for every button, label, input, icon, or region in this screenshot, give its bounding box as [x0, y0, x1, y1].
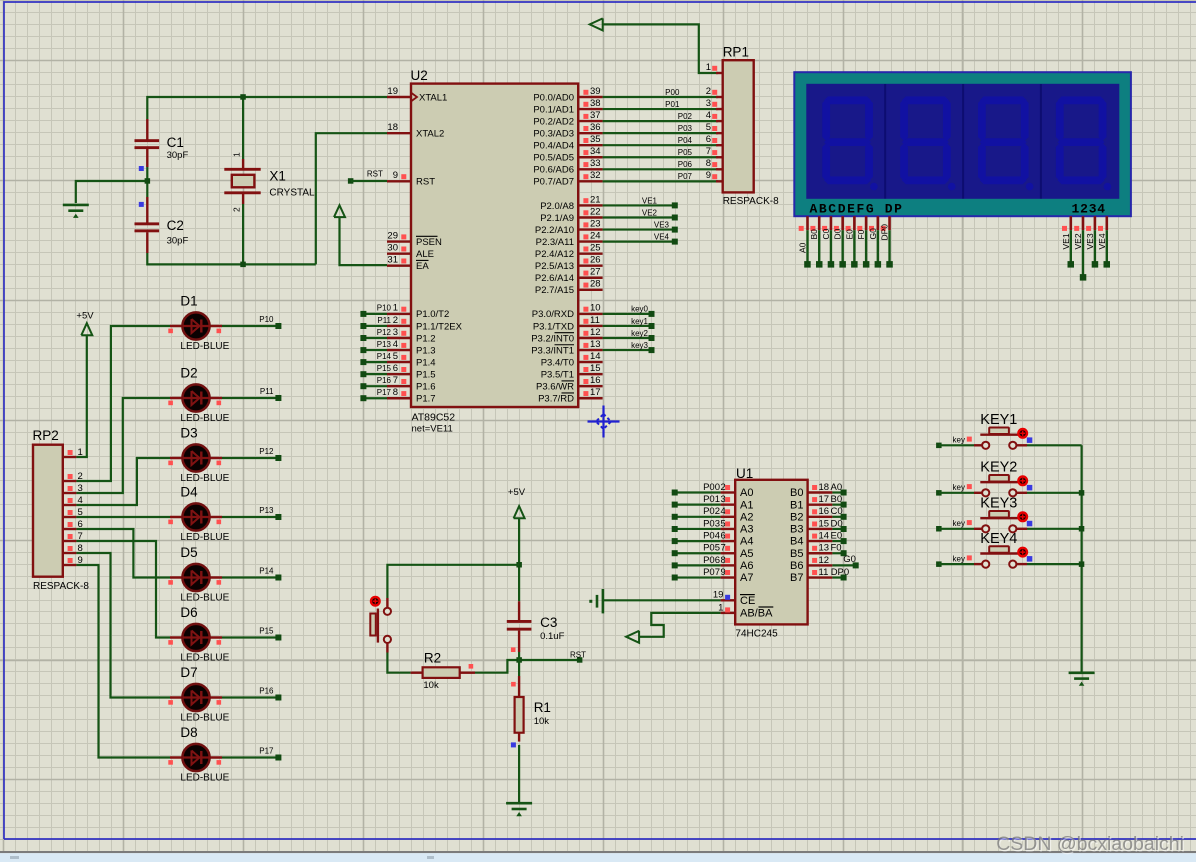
svg-text:RST: RST — [367, 170, 383, 179]
pin 14 P3.4/T0 (U2 right) — [578, 361, 602, 363]
svg-text:32: 32 — [590, 170, 601, 181]
svg-text:F0: F0 — [856, 229, 866, 239]
power arrow +5V (LED rail) — [81, 323, 92, 335]
terminal display DP0 — [886, 261, 893, 268]
svg-text:LED-BLUE: LED-BLUE — [180, 341, 229, 352]
wire RP2 pin7 to D6 — [76, 541, 170, 638]
wire P10 terminal stub — [363, 313, 387, 315]
svg-text:P3.2/INT0: P3.2/INT0 — [531, 333, 574, 344]
clock chevron XTAL1 — [411, 93, 417, 102]
pin 13 B5 (U1 right) — [808, 552, 833, 554]
wire CE ground to pin19 — [603, 599, 721, 601]
pin 21 P2.0/A8 (U2 right) — [578, 204, 602, 206]
svg-text:1234: 1234 — [1072, 202, 1106, 217]
pin 18 B0 (U1 right) — [808, 491, 833, 493]
pin E0 (display segment) — [853, 216, 856, 230]
wire crystal top lead — [242, 97, 244, 159]
logic-state markers D5 — [168, 580, 173, 585]
wire display C0 — [830, 230, 832, 264]
terminal P15 — [360, 371, 366, 377]
svg-text:P13: P13 — [377, 340, 392, 349]
svg-text:14: 14 — [590, 351, 601, 362]
svg-text:P12: P12 — [377, 328, 392, 337]
svg-text:X1: X1 — [269, 169, 286, 184]
pin 37 P0.2/AD2 (U2 right) — [578, 120, 602, 122]
svg-text:P0.2/AD2: P0.2/AD2 — [533, 116, 574, 127]
pin B0 (display segment) — [818, 216, 821, 230]
terminal VE4 — [672, 239, 678, 245]
crystal X1 — [242, 159, 244, 168]
terminal key1 (button side) — [936, 490, 942, 496]
svg-text:AB/BA: AB/BA — [740, 608, 773, 620]
terminal RST — [348, 178, 354, 184]
svg-text:D0: D0 — [833, 228, 843, 239]
svg-text:P03: P03 — [678, 124, 693, 133]
wire P03 to U1 — [675, 528, 721, 530]
svg-text:AT89C52: AT89C52 — [412, 412, 456, 424]
svg-text:P11: P11 — [260, 387, 274, 396]
svg-text:13: 13 — [819, 543, 830, 554]
svg-text:30: 30 — [387, 242, 398, 253]
svg-text:4: 4 — [393, 339, 398, 350]
pin A0 (display segment) — [806, 216, 809, 230]
pin 4 A2 (U1 left) — [721, 516, 736, 518]
terminal P14 — [360, 359, 366, 365]
svg-text:2: 2 — [393, 315, 398, 326]
svg-text:RP2: RP2 — [33, 428, 59, 443]
pin 4 P1.3 (U2 left) — [387, 349, 411, 351]
svg-text:B0: B0 — [831, 494, 843, 505]
svg-text:36: 36 — [590, 122, 601, 133]
svg-text:P1.2: P1.2 — [416, 333, 436, 344]
svg-text:A0: A0 — [798, 242, 808, 253]
svg-text:KEY4: KEY4 — [980, 531, 1017, 547]
wire reset button to R2 — [387, 653, 410, 673]
svg-text:P0.7/AD7: P0.7/AD7 — [533, 177, 574, 188]
pin 8 (RP2) — [63, 552, 77, 554]
pin 9 (RP1) — [716, 180, 724, 182]
wire VE4 net stub — [603, 241, 675, 243]
wire F0 net stub — [832, 552, 843, 554]
pin 16 B2 (U1 right) — [808, 516, 833, 518]
pin D0 (display segment) — [841, 216, 844, 230]
svg-text:1: 1 — [706, 62, 711, 73]
logic-state markers D4 — [168, 520, 173, 525]
svg-text:P1.4: P1.4 — [416, 357, 436, 368]
wire RP2 pin3 to D2 — [76, 398, 170, 493]
pin 3 P1.2 (U2 left) — [387, 337, 411, 339]
svg-text:P1.3: P1.3 — [416, 345, 436, 356]
node crystal bottom junction — [240, 262, 246, 268]
wire VE1 net stub — [603, 204, 675, 206]
svg-text:ALE: ALE — [416, 249, 434, 260]
svg-text:1: 1 — [232, 152, 242, 157]
svg-text:P3.7/RD: P3.7/RD — [538, 394, 574, 405]
wire display VE3 — [1094, 230, 1096, 264]
wire display E0 — [853, 230, 855, 264]
wire key3 net stub — [603, 349, 652, 351]
pin 27 P2.6/A14 (U2 right) — [578, 277, 602, 279]
logic-state marker C1 pin2 — [139, 166, 144, 171]
wire A0 net stub — [832, 491, 843, 493]
wire P07 net — [603, 180, 718, 182]
capacitor C2 — [146, 197, 148, 223]
terminal F0 — [841, 550, 847, 556]
terminal key2 — [649, 335, 655, 341]
pin 19 CE (U1) — [721, 599, 736, 601]
svg-text:P13: P13 — [259, 506, 274, 515]
pin 7 A5 (U1 left) — [721, 552, 736, 554]
svg-text:A0: A0 — [831, 482, 843, 493]
svg-text:LED-BLUE: LED-BLUE — [180, 653, 229, 664]
wire KEY3 right to bus — [1027, 528, 1082, 530]
pin 17 P3.7/RD (U2 right) — [578, 397, 602, 399]
svg-text:LED-BLUE: LED-BLUE — [180, 532, 229, 543]
svg-text:19: 19 — [713, 590, 724, 601]
wire top junction to reset button — [387, 565, 519, 598]
terminal key1 — [649, 323, 655, 329]
svg-text:CRYSTAL: CRYSTAL — [269, 188, 315, 199]
terminal VE1 — [672, 202, 678, 208]
svg-text:1: 1 — [393, 303, 398, 314]
pin 33 P0.6/AD6 (U2 right) — [578, 168, 602, 170]
terminal P12 — [360, 335, 366, 341]
svg-text:E0: E0 — [844, 229, 854, 240]
svg-text:P15: P15 — [377, 364, 392, 373]
pin 5 (RP1) — [716, 132, 724, 134]
terminal P00 (U1 side) — [672, 490, 678, 496]
node C1-C2 junction — [145, 178, 151, 184]
svg-text:5: 5 — [393, 351, 398, 362]
svg-text:16: 16 — [590, 375, 601, 386]
pin 24 P2.3/A11 (U2 right) — [578, 240, 602, 242]
wire XTAL2 net — [316, 133, 387, 264]
svg-text:LED-BLUE: LED-BLUE — [180, 713, 229, 724]
LED D4 — [170, 516, 222, 519]
wire +5V down through C3 node — [518, 518, 520, 601]
wire D2 to P11 terminal — [222, 397, 278, 399]
wire key2 net stub — [603, 337, 652, 339]
svg-text:A4: A4 — [740, 536, 753, 548]
terminal key2 (button side) — [936, 526, 942, 532]
node key bus junction — [1079, 526, 1085, 532]
svg-text:0.1uF: 0.1uF — [540, 631, 564, 642]
svg-text:P14: P14 — [377, 352, 392, 361]
svg-text:key1: key1 — [631, 317, 648, 326]
wire key ground bus — [1080, 445, 1082, 671]
terminal key0 (button side) — [936, 443, 942, 449]
pin 3 A1 (U1 left) — [721, 503, 736, 505]
terminal P12 (LED side) — [275, 455, 281, 461]
svg-text:P02: P02 — [703, 506, 720, 517]
terminal VE2 — [672, 215, 678, 221]
svg-text:XTAL1: XTAL1 — [419, 92, 447, 103]
svg-text:C2: C2 — [167, 218, 184, 233]
wire KEY4 right to bus — [1027, 563, 1082, 565]
svg-text:D4: D4 — [180, 485, 198, 500]
push button (reset) — [371, 597, 380, 606]
wire RST node to RST terminal — [519, 659, 580, 661]
terminal P17 — [360, 395, 366, 401]
push button KEY4 — [953, 531, 1033, 568]
terminal P05 (U1 side) — [672, 550, 678, 556]
svg-text:D6: D6 — [180, 605, 197, 620]
terminal display G0 — [875, 261, 882, 268]
pin DP0 (display segment) — [888, 216, 891, 230]
pin 36 P0.3/AD3 (U2 right) — [578, 132, 602, 134]
terminal P10 (LED side) — [275, 323, 281, 329]
wire C3 to R1 through node — [518, 652, 520, 676]
svg-text:P00: P00 — [665, 88, 680, 97]
svg-text:A3: A3 — [740, 524, 753, 536]
svg-text:P0.5/AD5: P0.5/AD5 — [533, 153, 574, 164]
wire key0 net stub — [603, 313, 652, 315]
svg-text:2: 2 — [721, 482, 726, 493]
terminal key0 — [649, 311, 655, 317]
svg-text:KEY1: KEY1 — [980, 412, 1017, 428]
pin 23 P2.2/A10 (U2 right) — [578, 228, 602, 230]
terminal P07 (U1 side) — [672, 575, 678, 581]
svg-text:13: 13 — [590, 339, 601, 350]
wire C1-C2 midpoint to ground — [146, 167, 148, 197]
svg-text:D8: D8 — [180, 725, 197, 740]
svg-text:16: 16 — [819, 506, 830, 517]
LED D6 — [170, 636, 222, 639]
wire EA power arrow to pin31 — [340, 217, 388, 265]
pin 9 RST (U2 left) — [387, 180, 411, 182]
logic-state markers D1 — [168, 329, 173, 334]
terminal display VE2 — [1080, 274, 1087, 281]
svg-text:P2.1/A9: P2.1/A9 — [540, 213, 574, 224]
svg-text:LED-BLUE: LED-BLUE — [180, 593, 229, 604]
svg-text:VE3: VE3 — [1085, 233, 1095, 249]
svg-text:30pF: 30pF — [167, 236, 189, 247]
svg-text:P3.1/TXD: P3.1/TXD — [533, 321, 574, 332]
wire D8 to P17 terminal — [222, 756, 278, 758]
pin 2 A0 (U1 left) — [721, 491, 736, 493]
wire KEY2 right to bus — [1027, 492, 1082, 494]
svg-text:P3.6/WR: P3.6/WR — [536, 382, 574, 393]
terminal E0 — [841, 538, 847, 544]
logic-state markers D6 — [168, 640, 173, 645]
svg-text:A2: A2 — [740, 511, 753, 523]
logic-state marker R1 pin1 — [511, 682, 516, 687]
terminal display C0 — [828, 261, 835, 268]
svg-text:9: 9 — [721, 567, 726, 578]
resistor pack RP1 body — [723, 60, 754, 192]
terminal P16 — [360, 383, 366, 389]
LED D7 — [170, 696, 222, 699]
pin 29 PSEN (U2 left) — [387, 240, 411, 242]
svg-text:P1.0/T2: P1.0/T2 — [416, 309, 449, 320]
logic-state marker C3 pin2 — [511, 647, 516, 652]
svg-text:key2: key2 — [631, 329, 648, 338]
node key bus junction — [1079, 490, 1085, 496]
overline RD — [562, 392, 575, 394]
terminal display A0 — [804, 261, 811, 268]
svg-text:P05: P05 — [703, 543, 720, 554]
svg-text:17: 17 — [590, 387, 601, 398]
wire P01 to U1 — [675, 504, 721, 506]
svg-text:29: 29 — [387, 230, 398, 241]
pin 16 P3.6/WR (U2 right) — [578, 385, 602, 387]
pin 18 XTAL2 (U2 left) — [387, 132, 411, 134]
wire D1 to P10 terminal — [222, 325, 278, 327]
svg-text:P1.1/T2EX: P1.1/T2EX — [416, 321, 463, 332]
wire RP2 pin5 to D4 — [76, 516, 170, 518]
push button KEY1 — [953, 412, 1033, 449]
svg-text:RP1: RP1 — [723, 45, 749, 60]
wire RP2 pin4 to D3 — [76, 458, 170, 505]
svg-text:P2.3/A11: P2.3/A11 — [536, 237, 574, 248]
svg-text:P3.5/T1: P3.5/T1 — [541, 369, 574, 380]
svg-text:P0.3/AD3: P0.3/AD3 — [533, 128, 574, 139]
wire D5 to P14 terminal — [222, 576, 278, 578]
wire crystal bottom bus — [147, 253, 315, 264]
svg-text:35: 35 — [590, 134, 601, 145]
7-segment display frame — [794, 72, 1131, 216]
IC U1 74HC245 body — [735, 480, 807, 625]
wire P12 terminal stub — [363, 337, 387, 339]
svg-text:CE: CE — [740, 595, 755, 607]
svg-text:P1.6: P1.6 — [416, 382, 436, 393]
LED D1 — [170, 325, 222, 328]
svg-text:net=VE11: net=VE11 — [412, 424, 453, 435]
terminal P06 (U1 side) — [672, 562, 678, 568]
pin 30 ALE (U2 left) — [387, 252, 411, 254]
pin 38 P0.1/AD1 (U2 right) — [578, 108, 602, 110]
pin 9 (RP2) — [63, 564, 77, 566]
pin VE2 (display common) — [1082, 216, 1085, 230]
svg-text:RST: RST — [570, 650, 586, 659]
svg-text:6: 6 — [393, 363, 398, 374]
svg-text:D7: D7 — [180, 665, 197, 680]
overline INT1 — [555, 344, 575, 346]
wire P07 to U1 — [675, 576, 721, 578]
wire XTAL1 net — [147, 97, 387, 119]
LED D2 — [170, 397, 222, 400]
wire display DP0 — [888, 230, 890, 264]
pin 2 (RP2) — [63, 480, 77, 482]
overline INT0 — [555, 332, 575, 334]
wire D7 to P16 terminal — [222, 696, 278, 698]
wire P13 terminal stub — [363, 349, 387, 351]
overline EA — [416, 259, 429, 261]
svg-text:ABCDEFG DP: ABCDEFG DP — [810, 202, 904, 217]
power arrow at EA — [334, 205, 345, 217]
svg-text:P2.4/A12: P2.4/A12 — [535, 249, 574, 260]
svg-text:39: 39 — [590, 86, 601, 97]
svg-text:12: 12 — [819, 555, 830, 566]
svg-text:18: 18 — [819, 482, 830, 493]
svg-text:VE2: VE2 — [1073, 233, 1083, 249]
svg-text:P0.6/AD6: P0.6/AD6 — [533, 165, 574, 176]
svg-text:D2: D2 — [180, 366, 197, 381]
pin 22 P2.1/A9 (U2 right) — [578, 216, 602, 218]
pin 11 P3.1/TXD (U2 right) — [578, 325, 602, 327]
svg-text:C3: C3 — [540, 615, 557, 630]
svg-text:F0: F0 — [831, 543, 842, 554]
node crystal top junction — [240, 94, 246, 100]
overline PSEN — [416, 235, 438, 237]
wire P03 net — [603, 132, 718, 134]
IC U2 AT89C52 body — [411, 84, 578, 407]
svg-text:38: 38 — [590, 98, 601, 109]
wire P00 to U1 — [675, 491, 721, 493]
LED D8 — [170, 756, 222, 759]
pin 14 B4 (U1 right) — [808, 540, 833, 542]
pin 19 XTAL1 (U2 left) — [387, 96, 411, 98]
svg-text:B6: B6 — [790, 560, 803, 572]
display digit 2 ghost segments — [900, 96, 955, 190]
svg-text:D5: D5 — [180, 545, 197, 560]
svg-text:A5: A5 — [740, 548, 753, 560]
wire P05 to U1 — [675, 552, 721, 554]
wire P01 net — [603, 108, 718, 110]
wire RP2 pin8 to D7 — [76, 553, 170, 698]
svg-text:key: key — [953, 483, 965, 492]
pin 1 AB/BA (U1) — [721, 612, 736, 614]
pin 15 B3 (U1 right) — [808, 528, 833, 530]
svg-text:key3: key3 — [631, 341, 648, 350]
wire KEY1 left — [939, 444, 974, 446]
pin 6 (RP2) — [63, 528, 77, 530]
svg-text:KEY2: KEY2 — [980, 460, 1017, 476]
svg-text:CSDN @bcxiaobaichi: CSDN @bcxiaobaichi — [996, 833, 1184, 855]
svg-text:P0.4/AD4: P0.4/AD4 — [533, 141, 574, 152]
svg-text:C0: C0 — [821, 228, 831, 239]
pin 32 P0.7/AD7 (U2 right) — [578, 180, 602, 182]
svg-text:3: 3 — [393, 327, 398, 338]
svg-text:B7: B7 — [790, 572, 803, 584]
svg-text:2: 2 — [232, 207, 242, 212]
svg-text:P07: P07 — [703, 567, 720, 578]
svg-text:4: 4 — [721, 506, 726, 517]
wire display VE2 — [1082, 230, 1084, 277]
svg-text:key: key — [953, 519, 965, 528]
pin 13 P3.3/INT1 (U2 right) — [578, 349, 602, 351]
pin 26 P2.5/A13 (U2 right) — [578, 265, 602, 267]
terminal P03 (U1 side) — [672, 526, 678, 532]
svg-text:4: 4 — [706, 110, 711, 121]
svg-text:EA: EA — [416, 261, 429, 272]
resistor pack RP2 body — [33, 445, 63, 577]
svg-text:P2.7/A15: P2.7/A15 — [535, 285, 574, 296]
pin 1 P1.0/T2 (U2 left) — [387, 313, 411, 315]
svg-text:P2.5/A13: P2.5/A13 — [535, 261, 574, 272]
svg-text:23: 23 — [590, 218, 601, 229]
svg-text:VE4: VE4 — [654, 232, 670, 241]
wire RP2 pin2 to D1 — [76, 326, 170, 481]
terminal P13 (LED side) — [275, 514, 281, 520]
svg-text:RESPACK-8: RESPACK-8 — [33, 581, 89, 592]
svg-text:E0: E0 — [831, 531, 843, 542]
svg-text:LED-BLUE: LED-BLUE — [180, 473, 229, 484]
wire P05 net — [603, 156, 718, 158]
terminal P13 — [360, 347, 366, 353]
display digit 4 ghost segments — [1056, 96, 1111, 190]
wire KEY2 left — [939, 492, 974, 494]
svg-text:9: 9 — [393, 170, 398, 181]
editor cursor crosshair — [588, 406, 620, 438]
svg-text:P04: P04 — [703, 531, 720, 542]
terminal DP0 — [841, 575, 847, 581]
svg-text:+5V: +5V — [508, 487, 526, 498]
svg-text:8: 8 — [393, 387, 398, 398]
svg-text:P05: P05 — [678, 148, 693, 157]
node RST junction — [516, 657, 522, 663]
terminal P10 — [360, 311, 366, 317]
